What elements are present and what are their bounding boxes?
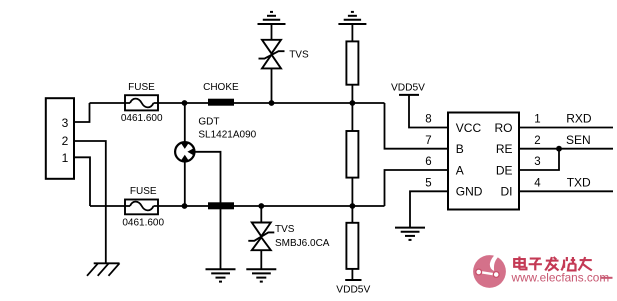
svg-text:RO: RO (495, 121, 513, 135)
wire top line B right segment (234, 102, 385, 104)
svg-text:2: 2 (534, 135, 540, 147)
junction line B / TVS D1 (269, 100, 275, 106)
svg-text:3: 3 (534, 156, 540, 168)
wire bottom TVS D2 connection (260, 206, 262, 223)
svg-text:7: 7 (425, 135, 431, 147)
svg-text:B: B (456, 142, 464, 156)
wire bottom line A right segment (234, 205, 385, 207)
wire pin4 DI to TXD (519, 190, 613, 192)
svg-text:GDT: GDT (198, 117, 219, 128)
svg-text:6: 6 (425, 156, 431, 168)
wire TVS D2 to ground (260, 250, 262, 269)
fuse F1 body (125, 95, 158, 110)
wire ground to TVS D1 (271, 24, 273, 40)
svg-text:FUSE: FUSE (128, 82, 155, 93)
wire bottom line A left segment (90, 205, 130, 207)
svg-text:TXD: TXD (567, 176, 591, 190)
svg-text:1: 1 (534, 114, 540, 126)
earth ground (top, above TVS D1) (258, 12, 286, 24)
svg-text:3: 3 (62, 116, 69, 130)
wire top line B left segment (90, 102, 131, 104)
svg-text:RE: RE (496, 142, 513, 156)
resistor R1 (346, 41, 358, 84)
svg-text:TVS: TVS (289, 50, 309, 61)
fuse F2 element (130, 202, 154, 211)
fuse F2 body (125, 200, 158, 215)
svg-text:1: 1 (62, 151, 69, 165)
earth ground (GDT electrode) (206, 269, 236, 281)
op IC U1 transceiver body (448, 113, 519, 210)
gas discharge tube GDT SL1421A090 circle (175, 142, 194, 161)
wire R1 to node B (351, 85, 353, 131)
svg-text:0461.600: 0461.600 (122, 218, 164, 229)
wire pin1 stub (74, 157, 90, 206)
wire node B step to pin7 (385, 103, 449, 149)
wire GDT vertical from line B (184, 103, 186, 144)
earth ground (below TVS D2) (246, 269, 276, 281)
wire GDT third electrode to ground (194, 152, 221, 269)
resistor R2 (termination) (346, 131, 358, 178)
GDT arrows (181, 143, 194, 161)
connector J1 body (46, 98, 74, 179)
wire R2 to node A (351, 178, 353, 223)
svg-text:VDD5V: VDD5V (391, 82, 425, 93)
wire pin 5 to ground (410, 191, 448, 227)
wire TVS D1 to line B (271, 68, 273, 103)
chassis ground (connector pin 2) (87, 263, 120, 276)
earth ground (IC GND pin 5) (395, 228, 425, 240)
svg-text:4: 4 (534, 178, 541, 190)
svg-text:SEN: SEN (566, 133, 591, 147)
svg-text:CHOKE: CHOKE (203, 82, 239, 93)
wire pin3 DE jumper to RE (519, 149, 559, 170)
power rail bar VDD5V (top right) (399, 94, 419, 96)
wire bottom line A middle segment (154, 205, 209, 207)
svg-text:0461.600: 0461.600 (121, 113, 163, 124)
watermark text 电子发烧友 (514, 256, 592, 270)
svg-text:8: 8 (425, 114, 431, 126)
junction node A / TVS D2 (258, 203, 264, 209)
svg-text:www.elecfans.com: www.elecfans.com (511, 271, 610, 285)
svg-text:VCC: VCC (456, 121, 482, 135)
svg-text:SMBJ6.0CA: SMBJ6.0CA (275, 238, 330, 249)
wire pin3 stub (74, 103, 90, 122)
wire pin2 RE to SEN (519, 148, 613, 150)
fuse F1 element (130, 99, 154, 108)
svg-text:A: A (456, 163, 464, 177)
junction node B-fuse/GDT (182, 100, 188, 106)
power rail bar VDD5V (bottom) (345, 279, 361, 281)
svg-text:SL1421A090: SL1421A090 (198, 129, 256, 140)
junction node B / resistor chain (350, 100, 356, 106)
svg-text:5: 5 (425, 178, 431, 190)
TVS diode D2 SMBJ6.0CA (bidirectional) (248, 223, 274, 251)
junction RE/DE to SEN (556, 146, 562, 152)
svg-text:DI: DI (501, 185, 513, 199)
svg-text:GND: GND (456, 185, 483, 199)
TVS diode D1 (bidirectional) (259, 40, 285, 69)
watermark dash (601, 277, 613, 279)
svg-text:TVS: TVS (275, 224, 295, 235)
wire R3 to VDD5V rail (351, 269, 353, 280)
svg-text:FUSE: FUSE (130, 186, 157, 197)
junction node A / GDT (182, 203, 188, 209)
wire ground to R1 (351, 24, 353, 41)
junction node A / resistor chain (350, 203, 356, 209)
svg-text:VDD5V: VDD5V (336, 285, 370, 296)
wire pin2 stub (74, 141, 106, 263)
wire top line B middle segment (154, 102, 209, 104)
svg-text:RXD: RXD (566, 112, 592, 126)
choke L1 winding (line B) (208, 99, 234, 106)
wire pin1 RO to RXD (519, 127, 613, 129)
svg-text:DE: DE (496, 163, 513, 177)
wire GDT vertical to line A (184, 160, 186, 206)
svg-text:2: 2 (62, 134, 69, 148)
wire VDD5V to pin 8 (409, 95, 448, 128)
wire node A step to pin6 (385, 170, 449, 206)
resistor R3 (346, 223, 358, 269)
choke L1 winding (line A) (208, 202, 234, 209)
watermark logo disc (473, 250, 506, 288)
earth ground (top of resistor chain) (338, 12, 366, 24)
